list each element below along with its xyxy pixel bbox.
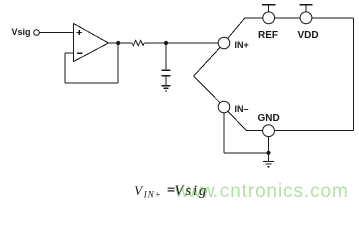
terminal Vsig xyxy=(34,30,40,36)
junction ground node xyxy=(266,151,270,155)
wire IN- to GND diagonal xyxy=(228,111,263,130)
wire right rail to GND xyxy=(274,130,353,132)
wire Vsig to op-amp non-inverting input xyxy=(39,32,73,34)
svg-text:Vsig: Vsig xyxy=(12,27,31,37)
wire right rail vertical xyxy=(353,18,355,131)
op-amp minus pin mark xyxy=(77,52,83,54)
wire feedback left vertical xyxy=(64,53,66,83)
svg-text:IN+: IN+ xyxy=(235,40,249,50)
wire IN- down vertical xyxy=(223,113,225,153)
op-amp U1 xyxy=(74,24,109,62)
ground under capacitor xyxy=(162,86,171,91)
wire resistor to filter node xyxy=(144,42,166,44)
wire capacitor bottom lead xyxy=(165,77,167,86)
formula V_IN+ = Vsig xyxy=(134,183,208,200)
svg-text:cntronics.com: cntronics.com xyxy=(220,181,349,202)
wire op-amp output xyxy=(109,42,133,44)
wire IN- bottom horizontal xyxy=(224,152,269,154)
wire IN+ to IN- upper diagonal xyxy=(194,47,220,76)
ground main xyxy=(263,161,274,166)
wire feedback right vertical xyxy=(117,43,119,83)
svg-text:IN+: IN+ xyxy=(143,190,162,200)
junction filter node xyxy=(164,41,168,45)
svg-text:IN–: IN– xyxy=(235,104,249,114)
terminal GND xyxy=(263,125,275,137)
wire filter node to IN+ xyxy=(166,42,218,44)
op-amp plus pin mark xyxy=(77,30,83,35)
svg-text:REF: REF xyxy=(258,30,278,41)
wire VDD to right rail xyxy=(312,17,354,19)
svg-text:GND: GND xyxy=(258,113,280,124)
resistor R1 xyxy=(132,40,144,45)
junction output node xyxy=(116,41,120,45)
wire inverting input xyxy=(65,52,74,54)
svg-text:VDD: VDD xyxy=(298,30,319,41)
wire IN+ to top rail diagonal xyxy=(228,18,263,39)
wire feedback bottom xyxy=(65,82,118,84)
node IN+ xyxy=(218,37,230,49)
wire IN+ to IN- lower diagonal xyxy=(194,76,220,103)
node IN- xyxy=(218,101,230,113)
wire GND circle to ground xyxy=(268,137,270,162)
capacitor C1 xyxy=(162,70,171,76)
svg-text:Vsig: Vsig xyxy=(175,183,209,199)
wire capacitor top lead xyxy=(165,43,167,70)
terminal VDD xyxy=(299,5,312,24)
wire REF to VDD xyxy=(275,17,301,19)
terminal REF xyxy=(262,5,275,24)
